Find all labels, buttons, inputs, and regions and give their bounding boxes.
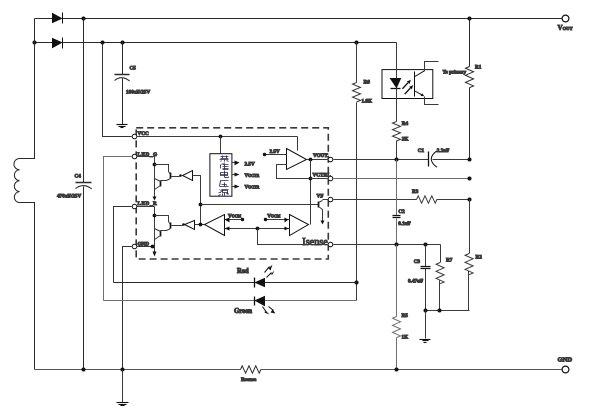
pin VCTRL (328, 176, 333, 181)
svg-text:2.2nF: 2.2nF (437, 148, 450, 154)
svg-text:C3: C3 (414, 259, 421, 265)
wire: left column upper (20, 19, 35, 159)
capacitor C4 470uF/25V (76, 19, 92, 370)
wire: op-amp output to VOUT pin (307, 159, 329, 161)
svg-text:2.5V: 2.5V (245, 162, 255, 168)
svg-text:VOCTR: VOCTR (245, 173, 260, 179)
svg-text:VOCTR: VOCTR (245, 184, 260, 190)
capacitor C2 0.1uF (393, 160, 401, 245)
node: output junction (309, 158, 313, 162)
buffer B2 (red) (185, 221, 195, 230)
reference output arrow Voctr (lower) (233, 186, 235, 188)
svg-text:2.5V: 2.5V (270, 149, 280, 155)
svg-text:R4: R4 (402, 121, 409, 127)
glyph 基 (220, 156, 229, 162)
wire: VF line with resistor R3 (334, 196, 470, 203)
svg-text:R7: R7 (446, 258, 453, 264)
diode D1 (top rectifier) (53, 13, 63, 24)
node: junction rail2/R6 column (355, 41, 359, 45)
svg-text:2K: 2K (402, 137, 409, 143)
terminal GND (562, 366, 569, 373)
node: tie/C3 (424, 309, 428, 313)
svg-text:1K: 1K (402, 335, 409, 341)
node: 2.5V stub dot (263, 153, 266, 156)
node: GND internal end (151, 245, 155, 249)
pin VF (328, 197, 333, 202)
svg-text:VCTRL: VCTRL (313, 173, 332, 179)
resistor R6 (353, 43, 361, 301)
node: Isense/C3 junction (424, 243, 428, 247)
op-amp U1a (output buffer) (287, 149, 307, 170)
optocoupler U2 (382, 70, 433, 99)
svg-text:VF: VF (317, 194, 324, 200)
svg-text:VOUT: VOUT (313, 153, 328, 159)
wire: LED_G internal (137, 156, 155, 158)
wire: internal VCC rail (137, 137, 298, 151)
opto LED (391, 79, 401, 88)
terminal VOUT (562, 15, 569, 22)
ground (main) (117, 403, 129, 406)
node: VCTRL junction (309, 177, 313, 181)
glyph 压 (220, 181, 229, 187)
resistor Rsense (241, 366, 261, 373)
wire: Isense line (334, 244, 441, 246)
node: rail/C4 (82, 368, 86, 372)
resistor R4 (393, 122, 401, 160)
voltage reference block (基准电压源) (210, 154, 232, 197)
svg-text:R6: R6 (364, 79, 371, 85)
svg-text:R3: R3 (412, 189, 419, 195)
wire: reference box feed (220, 137, 222, 154)
wire: VCTRL line (334, 178, 470, 180)
node: junction rail1/C4 column (82, 17, 86, 21)
node: VF/R2 junction (468, 198, 472, 202)
node: Isense/C2 junction (395, 243, 399, 247)
wire: buffer B2 input (195, 224, 205, 226)
svg-text:VOCM: VOCM (267, 213, 280, 219)
svg-text:Rsense: Rsense (241, 377, 257, 383)
node: VCTRL/R1 junction (468, 177, 472, 181)
pin GND (132, 244, 137, 249)
inductor L1 (transformer secondary) (14, 159, 20, 203)
wire: buffer B1 input (193, 176, 201, 225)
wire: comparator output line to VF transistor base (201, 204, 319, 206)
resistor R5 (393, 245, 401, 370)
wire: feedback loop to inverting input (277, 165, 309, 179)
svg-text:GND: GND (558, 357, 573, 364)
wire: VCTRL to pin (311, 178, 329, 180)
node: junction rail2/VCC column (101, 41, 105, 45)
node: buffer net lower (199, 223, 203, 227)
node: buffer net upper (199, 203, 203, 207)
wire: LED_R internal (137, 206, 155, 208)
wire: shared lower input line (225, 228, 290, 230)
wire: second rail (VCC rail) (35, 42, 397, 44)
wire: Isense internal (258, 229, 329, 245)
node: VOUT/R1 junction (468, 158, 472, 162)
wire: C3/R7/R2 tie line (426, 310, 470, 312)
transistor pair Q1/Q2 (green driver) (153, 157, 180, 201)
red LED emission arrows (265, 265, 275, 278)
glyph 电 (221, 171, 229, 178)
pin LED_R (132, 204, 137, 209)
node: tie/R7 (438, 309, 442, 313)
green LED emission arrows (263, 307, 276, 315)
node: junction rail2/C5 column (121, 41, 125, 45)
pin VOUT (328, 157, 333, 162)
svg-text:VOCM: VOCM (228, 213, 241, 219)
capacitor C3 0.47uF (421, 245, 431, 311)
transistor pair Q3/Q4 (red driver) (153, 207, 183, 257)
node: junction rail2/left column (33, 41, 37, 45)
pin LED_G (132, 154, 137, 159)
opto phototransistor (415, 71, 425, 97)
node: rail/R5 (395, 368, 399, 372)
comparator A1 (left, pointing left) (205, 215, 225, 236)
svg-text:C4: C4 (75, 173, 82, 179)
svg-text:470uF/25V: 470uF/25V (57, 193, 81, 199)
ground (C3 tie) (420, 340, 431, 343)
svg-text:Red: Red (237, 268, 249, 275)
diode D2 (lower rectifier) (53, 38, 63, 49)
glyph 源 (219, 190, 229, 196)
wire: tie to ground (425, 311, 427, 339)
transistor Q5 (VF sense) (306, 200, 329, 225)
LED green (254, 297, 256, 306)
red LED line (114, 282, 357, 284)
wire: opto emitter to primary (425, 97, 439, 105)
wire: A2 upper input stub Vocm (266, 219, 290, 221)
node: junction rail1/R1 column (468, 17, 472, 21)
svg-text:0.47uF: 0.47uF (408, 279, 423, 285)
svg-text:1.9K: 1.9K (362, 99, 373, 105)
svg-text:C2: C2 (398, 209, 405, 215)
green LED line (104, 300, 357, 302)
wire: A1 upper input stub Vocm (225, 219, 243, 221)
node: R6/red LED junction (355, 281, 359, 285)
wire: 2.5V input stub (265, 154, 287, 156)
glyph 准 (221, 163, 229, 170)
capacitor C1 2.2nF (429, 151, 437, 167)
wire: VCC pin feed (103, 43, 132, 137)
wire: GND internal (137, 246, 153, 248)
wire: LED_G pin to green LED (104, 157, 132, 301)
resistor R1 (466, 19, 474, 160)
node: VOUT/R4 junction (395, 158, 399, 162)
wire: GND pin column below rail (122, 370, 124, 403)
svg-text:C5: C5 (130, 66, 137, 72)
reference output arrow Voctr (upper) (233, 174, 235, 176)
LED red (254, 278, 256, 288)
pin Isense (328, 242, 333, 247)
bottom rail (GND) (35, 369, 563, 371)
wire: opto collector to primary (425, 62, 439, 71)
svg-text:C1: C1 (418, 148, 425, 154)
IC U1 dashed package outline (136, 128, 328, 259)
svg-text:R5: R5 (402, 313, 409, 319)
svg-text:Isense: Isense (302, 236, 328, 248)
pin VCC (132, 134, 137, 139)
wire: LED_R pin to red LED (114, 207, 132, 283)
svg-text:VOUT: VOUT (558, 24, 573, 32)
resistor R7 (436, 245, 444, 311)
svg-text:R1: R1 (475, 65, 482, 71)
svg-text:0.1uF: 0.1uF (398, 221, 411, 227)
svg-text:Green: Green (234, 308, 252, 315)
node: Isense tap (256, 227, 260, 231)
resistor R2 (465, 200, 473, 311)
wire: VOUT line (334, 159, 470, 161)
node: VCC/reference tap (219, 135, 223, 139)
reference output arrow 2.5V (233, 162, 235, 164)
svg-text:R2: R2 (476, 255, 483, 261)
wire: opto LED feed (396, 43, 398, 79)
wire: GND pin to bottom rail (123, 247, 132, 370)
wire: top rail (VOUT rail) (35, 18, 563, 20)
node: rail/GND-pin column (121, 368, 125, 372)
wire: left column lower (20, 203, 35, 370)
buffer B1 (green) (183, 171, 193, 181)
svg-text:100uF/25V: 100uF/25V (126, 90, 150, 96)
opto emission arrows (402, 80, 413, 95)
ground (C5) (117, 125, 128, 128)
comparator A2 (right, pointing right) (290, 215, 309, 236)
svg-text:To primary: To primary (443, 71, 467, 76)
capacitor C5 100uF/25V (115, 43, 130, 125)
wire: output down to VCTRL and comparator (310, 160, 312, 225)
